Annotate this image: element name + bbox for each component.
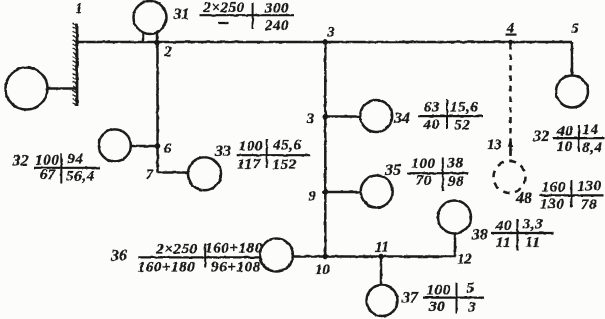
- svg-text:45,6: 45,6: [272, 138, 302, 154]
- svg-text:3,3: 3,3: [522, 217, 544, 233]
- svg-text:37: 37: [401, 290, 419, 307]
- svg-text:100: 100: [427, 283, 451, 299]
- fraction for 38: [491, 217, 554, 252]
- svg-text:2×250: 2×250: [155, 242, 198, 258]
- svg-text:9: 9: [308, 189, 315, 205]
- generator circle at busbar: [6, 68, 48, 110]
- consumer circle 33: [188, 157, 221, 190]
- svg-text:35: 35: [384, 162, 401, 179]
- fraction for 32 right: [553, 122, 605, 156]
- svg-text:11: 11: [496, 235, 511, 251]
- svg-text:32: 32: [532, 128, 549, 145]
- svg-text:100: 100: [411, 156, 435, 172]
- svg-text:48: 48: [515, 190, 532, 207]
- wire generator to busbar: [48, 87, 78, 90]
- fraction for 37: [423, 281, 485, 316]
- wire node 12 up to circle 38: [454, 234, 457, 257]
- svg-text:3: 3: [326, 25, 334, 41]
- consumer circle 34: [360, 100, 392, 132]
- svg-text:36: 36: [110, 248, 127, 265]
- svg-text:3: 3: [467, 300, 476, 316]
- svg-text:11: 11: [525, 235, 540, 251]
- wire bottom horizontal: [293, 255, 455, 258]
- svg-text:38: 38: [471, 227, 488, 244]
- svg-text:31: 31: [173, 6, 190, 23]
- wire node 5 down to circle: [571, 42, 574, 76]
- fraction for 33: [237, 138, 310, 174]
- wire node 7 to circle 33: [158, 171, 189, 174]
- consumer circle 35: [361, 176, 393, 208]
- wire node 6 stub to consumer circle: [131, 145, 158, 148]
- consumer circle 38: [438, 201, 471, 234]
- wire node 3 to circle 34: [325, 115, 360, 118]
- wire node 11 down to circle 37: [380, 257, 383, 286]
- svg-text:130: 130: [540, 197, 564, 213]
- svg-text:40: 40: [495, 218, 512, 234]
- svg-text:2×250: 2×250: [202, 0, 245, 16]
- svg-text:30: 30: [428, 299, 445, 315]
- busbar node 1: [73, 23, 77, 106]
- svg-text:96+108: 96+108: [211, 260, 261, 276]
- node 10 junction dot: [323, 254, 329, 260]
- svg-text:33: 33: [214, 143, 231, 160]
- node 3 junction dot: [323, 114, 329, 120]
- svg-text:5: 5: [571, 21, 578, 37]
- wire main top horizontal: [77, 41, 572, 44]
- svg-text:11: 11: [375, 240, 389, 256]
- svg-text:117: 117: [237, 157, 260, 173]
- svg-text:67: 67: [40, 167, 56, 183]
- svg-text:160+180: 160+180: [205, 241, 263, 257]
- wire node2 down to node 7: [156, 42, 159, 173]
- svg-text:56,4: 56,4: [66, 169, 95, 185]
- svg-text:70: 70: [416, 173, 432, 189]
- svg-text:78: 78: [581, 197, 597, 213]
- consumer circle at node 5: [556, 76, 588, 108]
- node 11 junction dot: [378, 254, 384, 260]
- svg-text:100: 100: [239, 139, 263, 155]
- wire central vertical: [324, 42, 327, 257]
- svg-text:8,4: 8,4: [582, 140, 603, 156]
- svg-text:14: 14: [582, 122, 598, 138]
- svg-text:32: 32: [12, 153, 29, 170]
- svg-text:5: 5: [466, 281, 474, 297]
- dashed reservoir circle 48: [494, 161, 526, 193]
- svg-text:63: 63: [424, 100, 440, 116]
- pump 31 circle: [134, 1, 167, 34]
- fraction for 31: [200, 0, 295, 34]
- flow arrow 13: [508, 138, 513, 157]
- consumer circle 37: [367, 285, 398, 316]
- pump 36 circle: [260, 239, 293, 272]
- svg-text:12: 12: [457, 252, 472, 268]
- fraction for 32: [34, 152, 100, 185]
- node 4 junction dot: [508, 40, 513, 45]
- svg-text:130: 130: [577, 179, 601, 195]
- svg-text:152: 152: [273, 157, 297, 173]
- svg-text:15,6: 15,6: [450, 100, 479, 116]
- svg-text:34: 34: [393, 110, 410, 127]
- svg-text:240: 240: [264, 18, 289, 34]
- svg-text:10: 10: [315, 262, 330, 278]
- svg-text:160: 160: [542, 180, 566, 196]
- svg-text:10: 10: [557, 139, 573, 155]
- pump 31 legs: [142, 32, 145, 42]
- svg-text:40: 40: [422, 117, 439, 133]
- dashed wire node 4 down: [509, 44, 512, 160]
- node 3-top junction dot: [323, 39, 329, 45]
- fraction for 36: [138, 241, 263, 276]
- svg-text:3: 3: [306, 111, 314, 127]
- fraction for 34: [418, 100, 483, 134]
- node 9 junction dot: [323, 189, 329, 195]
- node 6 junction dot: [155, 143, 161, 149]
- consumer circle at node 6: [99, 129, 131, 161]
- svg-text:6: 6: [164, 141, 172, 157]
- svg-text:94: 94: [67, 152, 83, 168]
- node 2 junction dot: [154, 40, 160, 46]
- svg-text:160+180: 160+180: [138, 260, 196, 276]
- svg-text:52: 52: [454, 118, 470, 134]
- svg-text:38: 38: [446, 156, 463, 172]
- svg-text:98: 98: [448, 174, 464, 190]
- svg-text:1: 1: [75, 1, 82, 17]
- wire node 9 to circle 35: [325, 191, 360, 194]
- svg-text:300: 300: [264, 0, 289, 16]
- svg-text:7: 7: [146, 167, 154, 183]
- fraction for 35: [408, 156, 469, 192]
- svg-text:2: 2: [163, 44, 171, 60]
- svg-text:13: 13: [487, 137, 502, 153]
- fraction for 48: [540, 179, 604, 214]
